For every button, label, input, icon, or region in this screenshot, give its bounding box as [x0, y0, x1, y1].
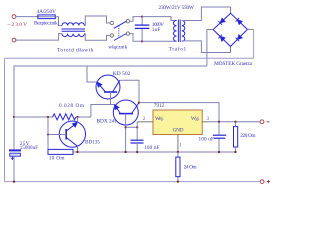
svg-text:MOSTEK Graetza: MOSTEK Graetza — [214, 61, 253, 67]
wire node B to transformer primary — [142, 40, 176, 42]
capacitor C1 1uF plates — [135, 24, 150, 26]
wire capacitor C2 to bottom bus — [13, 156, 15, 181]
switch S1 contact bottom-right — [126, 32, 129, 35]
transistor Q3 BDX 24 circle — [113, 100, 138, 125]
switch S1 arm bottom — [114, 34, 127, 41]
wire Q2 collector to node I — [120, 80, 140, 102]
capacitor C2 15000uF plate bottom (polarized) — [10, 153, 21, 156]
wire switch bottom to node B — [130, 34, 143, 42]
base column wire — [47, 117, 49, 152]
wire toroid to switch top — [84, 16, 110, 26]
capacitor C4 100uF plates — [213, 134, 226, 136]
transistor Q1 base bar — [65, 129, 67, 140]
wire base link to 7912 input column — [126, 126, 138, 128]
node K junction (base on mid rail) — [124, 151, 126, 153]
svg-text:GND: GND — [173, 127, 184, 133]
node M junction (C3 on mid rail) — [136, 151, 138, 153]
bridge diode upper-left — [218, 18, 225, 25]
bridge rectifier D1 MOSTEK Graetza diamond — [213, 13, 247, 46]
bridge pin DC+ (right corner) — [247, 28, 253, 30]
resistor R3 220 Om body — [234, 127, 238, 147]
svg-text:100 nF: 100 nF — [144, 145, 160, 151]
bridge pin AC2 — [230, 46, 232, 52]
wire Q3 base down — [125, 114, 127, 152]
svg-text:Bezpiecznik: Bezpiecznik — [34, 21, 58, 27]
svg-text:KD 502: KD 502 — [113, 71, 131, 77]
svg-text:100 uF: 100 uF — [199, 136, 215, 142]
positive bus left segment — [4, 58, 6, 181]
wire input column — [136, 122, 138, 140]
bridge diode lower-left — [218, 35, 225, 42]
regulator U1 7912 body — [153, 110, 202, 135]
node L junction (input column) — [136, 126, 138, 128]
terminal J4 (output plus) — [260, 180, 264, 184]
wire resistor R1 to emitter riser — [76, 116, 91, 118]
svg-text:0.028 Om: 0.028 Om — [59, 103, 85, 109]
wire Q1 base to base column — [48, 134, 66, 136]
wire bridge left corner down to negative rail — [206, 30, 208, 66]
transformer TR1 primary winding — [174, 21, 177, 42]
resistor R4 24 Om body — [176, 157, 180, 177]
bridge pin AC1 — [230, 7, 232, 13]
resistor R1 0.028 Om zigzag — [53, 114, 76, 120]
svg-text:15000uF: 15000uF — [20, 146, 39, 151]
svg-text:1uF: 1uF — [152, 27, 161, 33]
toroid choke L1 bottom winding — [62, 34, 84, 37]
wire secondary top to bridge AC1 — [182, 7, 231, 21]
node H junction (Q1 collector on mid rail) — [76, 151, 78, 153]
svg-text:włącznik: włącznik — [108, 45, 127, 51]
terminal J2 (~230V neutral) — [12, 38, 16, 42]
node D junction (cap to bottom bus) — [13, 180, 15, 182]
switch S1 gang linkage (dotted) — [118, 26, 120, 38]
wire Q2 emitter to negative rail — [87, 66, 97, 82]
svg-text:Toroid dławik: Toroid dławik — [57, 47, 94, 53]
node P junction (220 Om top) — [234, 121, 236, 123]
node A junction — [141, 15, 143, 17]
node O junction (output riser) — [218, 121, 220, 123]
wire Q1 collector to mid rail — [77, 146, 79, 152]
transistor Q1 collector — [66, 138, 77, 147]
switch S1 contact bottom-left — [110, 34, 113, 37]
switch S1 arm top — [114, 21, 127, 28]
wire J1 to fuse — [16, 16, 38, 18]
transistor Q2 base bar — [104, 91, 117, 93]
wire switch top to node A — [130, 17, 143, 22]
node N junction (gnd pin on mid rail) — [177, 151, 179, 153]
wire Q3 emitter to sense riser — [91, 105, 114, 118]
svg-text:BD135: BD135 — [85, 139, 100, 145]
toroid choke L1 top winding — [62, 23, 84, 26]
svg-text:10 Om: 10 Om — [49, 155, 66, 161]
wire Q1 emitter to sense rail — [77, 117, 79, 123]
transistor Q2 KD 502 circle — [96, 75, 120, 99]
positive bus bottom segment — [5, 181, 261, 183]
node B junction — [141, 40, 143, 42]
fuse F1 — [38, 16, 56, 18]
terminal J3 (output minus) — [260, 120, 264, 124]
bridge diode upper-right — [236, 18, 243, 24]
capacitor C3 lead to mid rail — [136, 143, 138, 152]
resistor R4 24 Om leads — [177, 152, 179, 157]
mid rail wire — [73, 151, 236, 153]
transistor Q1 BD135 circle — [59, 121, 85, 147]
resistor R2 10 Om body — [48, 149, 73, 154]
node E junction (sense rail / base column) — [47, 116, 49, 118]
node R junction (R3 bottom on mid rail) — [234, 151, 236, 153]
node J junction (base to input link) — [124, 126, 126, 128]
output rail wire — [209, 121, 260, 123]
wire node A to transformer primary — [142, 17, 176, 21]
capacitor C3 100nF plates — [131, 139, 144, 141]
wire collectors to output riser — [139, 103, 219, 122]
node I junction (collectors tied) — [138, 101, 140, 103]
capacitor C1 1uF leads — [141, 17, 143, 26]
bridge pin DC- (left corner) — [207, 29, 213, 31]
label minus — [267, 121, 270, 123]
wire left rail down to capacitor C2 — [13, 117, 15, 149]
terminal J1 (~230V line) — [12, 15, 16, 19]
svg-text:7912: 7912 — [154, 103, 165, 109]
svg-text:4A/250V: 4A/250V — [37, 9, 57, 15]
U1 pin 1 wire (gnd) — [177, 135, 179, 153]
transistor Q2 emitter with arrow — [97, 82, 106, 92]
capacitor C2 15000uF plate top — [9, 149, 21, 151]
wire J2 to toroid — [16, 34, 62, 41]
transistor Q3 emitter with arrow — [114, 105, 120, 114]
sense rail wire — [14, 116, 54, 118]
U1 pin 2 wire (input) — [137, 121, 153, 123]
svg-text:Trafo1: Trafo1 — [169, 46, 187, 53]
toroid choke L1 core — [62, 28, 86, 30]
capacitor C4 100uF leads — [218, 122, 220, 135]
resistor R3 leads — [235, 122, 237, 127]
transistor Q3 collector — [132, 103, 140, 114]
node G junction (base column) — [47, 133, 49, 135]
node F junction (BD135 emitter) — [76, 116, 78, 118]
wire Q2 base down — [110, 92, 112, 105]
wire secondary bottom to bridge AC2 — [182, 41, 231, 53]
svg-text:230W/21V 550W: 230W/21V 550W — [159, 5, 195, 11]
svg-text:BDX 24I: BDX 24I — [97, 119, 117, 125]
svg-text:Wyj.: Wyj. — [191, 116, 200, 122]
transistor Q1 emitter with arrow — [66, 122, 77, 131]
switch S1 contact top-right — [126, 20, 129, 23]
label plus — [267, 180, 270, 183]
wire toroid to switch bottom — [84, 34, 110, 41]
negative rail horizontal — [14, 66, 207, 117]
capacitor C2 plus mark — [11, 157, 14, 160]
transformer TR1 secondary winding — [182, 21, 185, 42]
svg-text:Wej.: Wej. — [155, 116, 164, 122]
positive bus top segment — [5, 57, 254, 59]
wire fuse to toroid — [55, 17, 62, 26]
node S junction (R4 on bottom bus) — [177, 180, 179, 182]
node Q junction (C4 on mid rail) — [218, 151, 220, 153]
U1 pin 3 wire (output) — [202, 121, 209, 123]
wire bridge right corner down to positive bus — [253, 29, 255, 58]
transistor Q2 collector — [113, 80, 120, 92]
bridge diode lower-right — [236, 35, 243, 42]
svg-text:24 Om: 24 Om — [184, 165, 198, 171]
node C junction (left rail at sense rail) — [13, 116, 15, 118]
transistor Q3 base bar — [119, 113, 133, 115]
transformer TR1 core — [177, 20, 179, 43]
svg-text:220 Om: 220 Om — [240, 133, 256, 139]
switch S1 contact top-left — [110, 21, 113, 24]
